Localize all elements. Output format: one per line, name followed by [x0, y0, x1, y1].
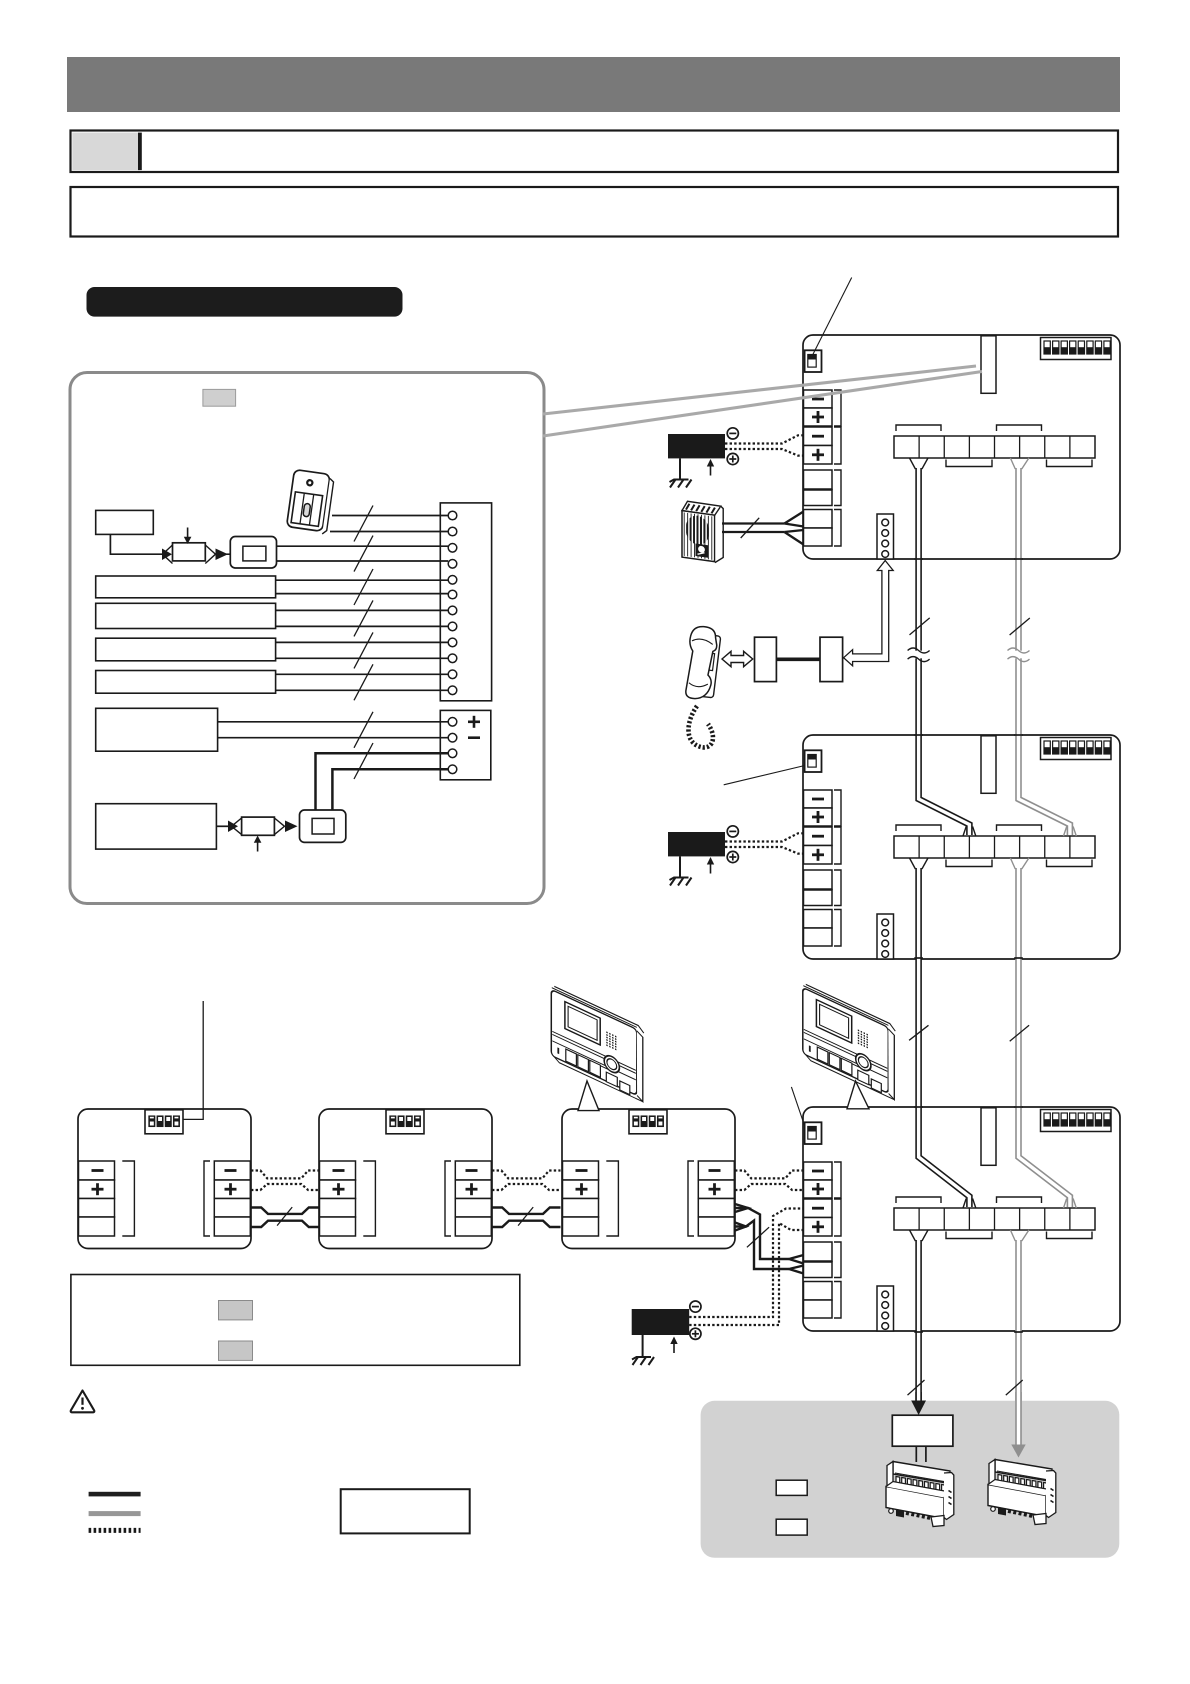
handset box H1 — [755, 637, 777, 681]
connector block CB1 — [886, 1462, 954, 1527]
header banner — [67, 57, 1120, 112]
double arrow handset-adaptor — [722, 651, 753, 666]
wires adaptor2 to P2 — [316, 753, 449, 810]
slashes below U2 — [909, 1025, 928, 1040]
legend line dotted — [89, 1528, 141, 1533]
hub label box — [892, 1415, 953, 1446]
note chip 2 — [219, 1341, 253, 1360]
sub heading box — [71, 187, 1119, 237]
outlined arrow H2 to U1 connector — [844, 561, 894, 666]
hub leads — [915, 1446, 917, 1462]
monitor station M2 — [803, 983, 896, 1100]
wire b1 to plug — [110, 534, 162, 554]
wire gray trunk U2-U3 — [1010, 858, 1029, 869]
handset icon — [683, 625, 722, 747]
label box b2 — [96, 576, 276, 598]
slashes below U1 — [910, 618, 930, 635]
wire black trunk U1-U2 — [910, 458, 929, 469]
slash speaker pair — [741, 518, 760, 538]
power supply PS3 — [632, 1209, 804, 1366]
wires door station to P1 — [330, 516, 448, 532]
dotted pair RS3-U3 — [735, 1171, 804, 1191]
warning triangle — [71, 1391, 95, 1413]
legend box — [341, 1489, 470, 1533]
wires adaptor to P1 — [277, 546, 449, 561]
panel chip 1 — [776, 1480, 807, 1495]
power supply PS2 — [668, 826, 804, 886]
wires b6 to P2 — [218, 722, 449, 738]
audio door station icon — [286, 470, 334, 535]
main unit U2 — [803, 735, 1120, 959]
plug symbol bottom — [216, 817, 297, 851]
room station RS1 — [78, 1109, 251, 1249]
pointer to U1 battery — [813, 278, 852, 356]
wire gray trunk U3-panel — [1010, 1230, 1029, 1241]
terminal panel P1 — [440, 503, 491, 701]
wires speaker to U1 — [722, 512, 804, 545]
step heading box — [71, 131, 1119, 173]
note box — [71, 1275, 520, 1366]
cable-count slashes (detail box) — [354, 506, 373, 780]
pointer to U2 battery — [724, 766, 805, 785]
detail callout box — [70, 373, 544, 904]
link H1-H2 — [776, 657, 820, 661]
pointer to U3 battery — [791, 1087, 805, 1127]
callout V M1 — [578, 1081, 599, 1111]
legend line gray — [89, 1511, 141, 1516]
note gray chip — [203, 389, 236, 406]
wire black trunk U2-U3 — [910, 858, 929, 869]
main unit U3 — [803, 1107, 1120, 1331]
wire gray trunk U1-U2 — [1010, 458, 1029, 469]
cable break symbols — [908, 651, 930, 659]
wire black trunk U3-panel — [910, 1230, 929, 1241]
panel chip 2 — [776, 1519, 807, 1535]
label box b7 — [96, 804, 217, 849]
note chip 1 — [219, 1301, 253, 1320]
wires b2..b5 to P1 — [276, 580, 449, 690]
link RS2-RS3 — [492, 1171, 561, 1228]
callout V M2 — [847, 1081, 869, 1109]
bottom gray panel — [701, 1401, 1120, 1558]
handset box H2 — [820, 637, 843, 681]
label box b4 — [96, 638, 276, 661]
monitor station M1 — [551, 985, 644, 1102]
label box b3 — [96, 603, 276, 628]
label box b6 — [96, 708, 218, 751]
power supply PS1 — [668, 428, 804, 488]
slashes below U3 — [908, 1380, 925, 1395]
link RS1-RS2 — [251, 1171, 320, 1228]
adaptor box bottom — [300, 810, 346, 842]
unit border ticks over wires — [914, 559, 1023, 1332]
slash RS3-U3 pair — [747, 1227, 769, 1247]
terminal block P2 — [440, 710, 491, 779]
legend line black — [89, 1492, 141, 1497]
adaptor box top — [230, 537, 276, 569]
room station RS3 — [562, 1109, 735, 1249]
label box b1 — [96, 510, 154, 534]
speaker station icon — [682, 501, 723, 562]
thick pair RS3-U3 — [735, 1204, 804, 1274]
section title black bar — [87, 287, 403, 317]
label box b5 — [96, 671, 276, 694]
callout leader lines — [543, 366, 976, 414]
plug symbol top — [162, 528, 230, 564]
room station RS2 — [319, 1109, 492, 1249]
main unit U1 — [803, 335, 1120, 559]
pointer to RS1 dip switch — [184, 1001, 204, 1119]
connector block CB2 — [988, 1460, 1056, 1525]
